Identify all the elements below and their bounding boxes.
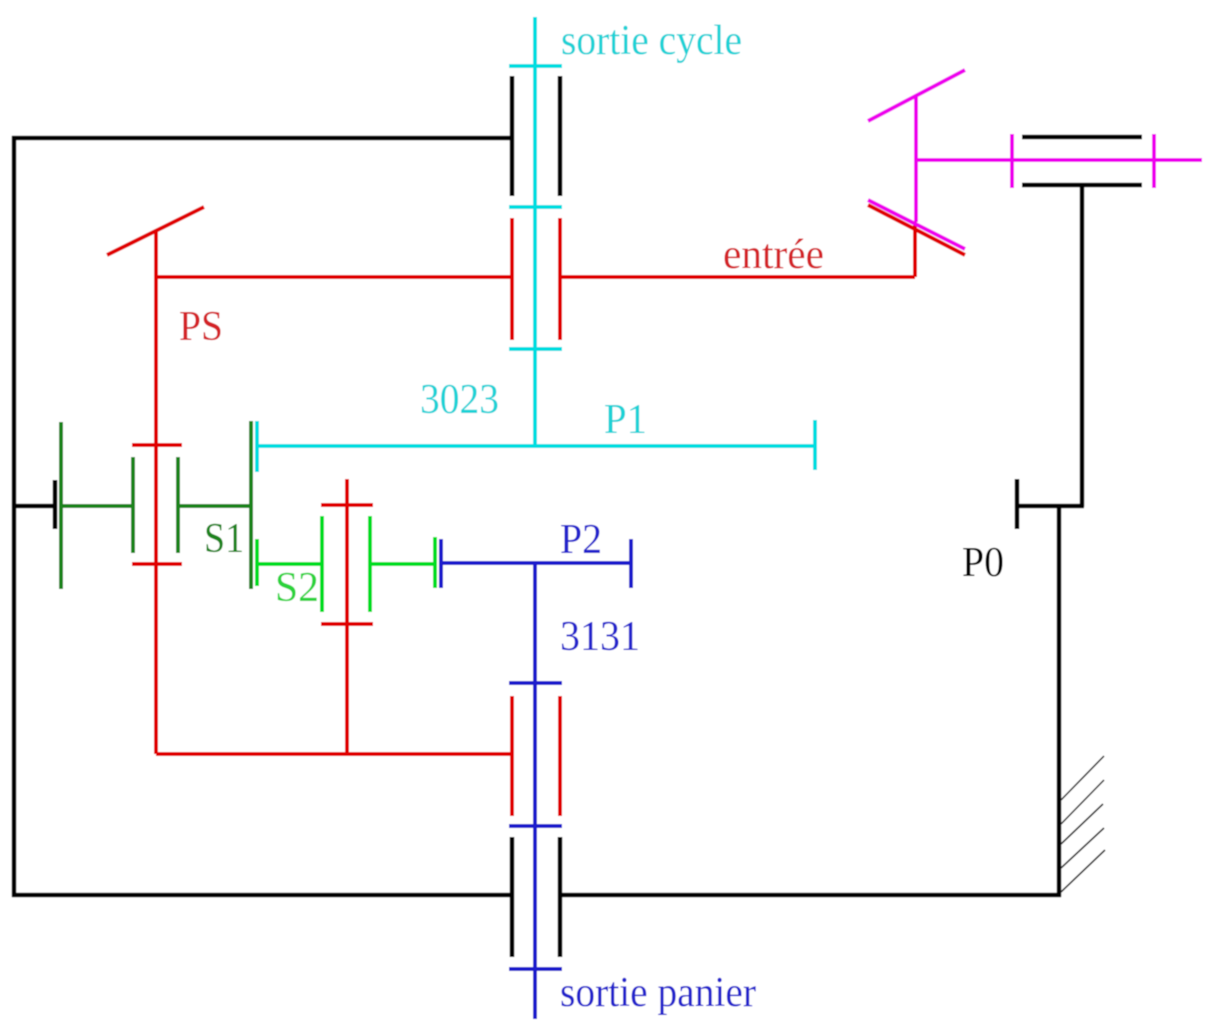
svg-text:P1: P1: [604, 397, 647, 443]
svg-text:S2: S2: [275, 565, 319, 611]
svg-text:sortie cycle: sortie cycle: [561, 18, 742, 64]
svg-text:sortie panier: sortie panier: [560, 970, 756, 1016]
svg-text:P0: P0: [962, 540, 1004, 586]
svg-text:S1: S1: [204, 516, 244, 562]
svg-text:P2: P2: [560, 517, 602, 563]
svg-text:3023: 3023: [420, 377, 499, 423]
svg-text:PS: PS: [179, 304, 223, 350]
svg-text:entrée: entrée: [723, 232, 824, 278]
svg-text:3131: 3131: [560, 614, 640, 660]
